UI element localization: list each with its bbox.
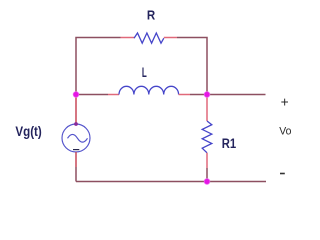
wire: bottom rail: [76, 181, 266, 183]
inductor L: [119, 86, 179, 94]
wire: R1 bottom pin lead: [206, 153, 208, 168]
svg-text:R1: R1: [222, 136, 237, 151]
wire: Vg bottom pin lead: [75, 152, 77, 167]
wire: R right pin lead: [164, 37, 177, 39]
wire: L right pin lead: [179, 94, 190, 96]
sine wave of source: [68, 134, 88, 142]
voltage source Vg(t): [62, 124, 90, 152]
wire: L left pin lead: [108, 94, 119, 96]
wire: R1 top pin lead: [206, 95, 208, 122]
wire: source to bottom rail: [75, 167, 77, 182]
label - output: [280, 173, 285, 175]
svg-text:R: R: [147, 8, 156, 23]
svg-text:Vo: Vo: [279, 126, 291, 138]
wire: top rail left segment (node to R pin): [76, 38, 121, 95]
resistor R1: [202, 121, 212, 153]
wire: node A to inductor: [76, 94, 108, 96]
resistor R: [134, 33, 164, 43]
minus mark inside source: [73, 149, 79, 151]
svg-text:+: +: [281, 95, 289, 110]
svg-text:L: L: [142, 65, 147, 81]
wire: R1 to bottom rail node: [206, 168, 208, 182]
wire: node B to + output terminal: [207, 94, 266, 96]
node C junction dot (bottom): [204, 178, 210, 184]
pin dot at source top: [74, 122, 78, 126]
wire: top rail right segment down to node: [177, 38, 207, 95]
wire: inductor to node B: [190, 94, 207, 96]
wire: R left pin lead: [121, 37, 135, 39]
svg-text:Vg(t): Vg(t): [15, 124, 41, 139]
node B junction dot: [204, 91, 210, 97]
wire: Vg top pin lead: [75, 95, 77, 125]
node A junction dot: [73, 91, 79, 97]
